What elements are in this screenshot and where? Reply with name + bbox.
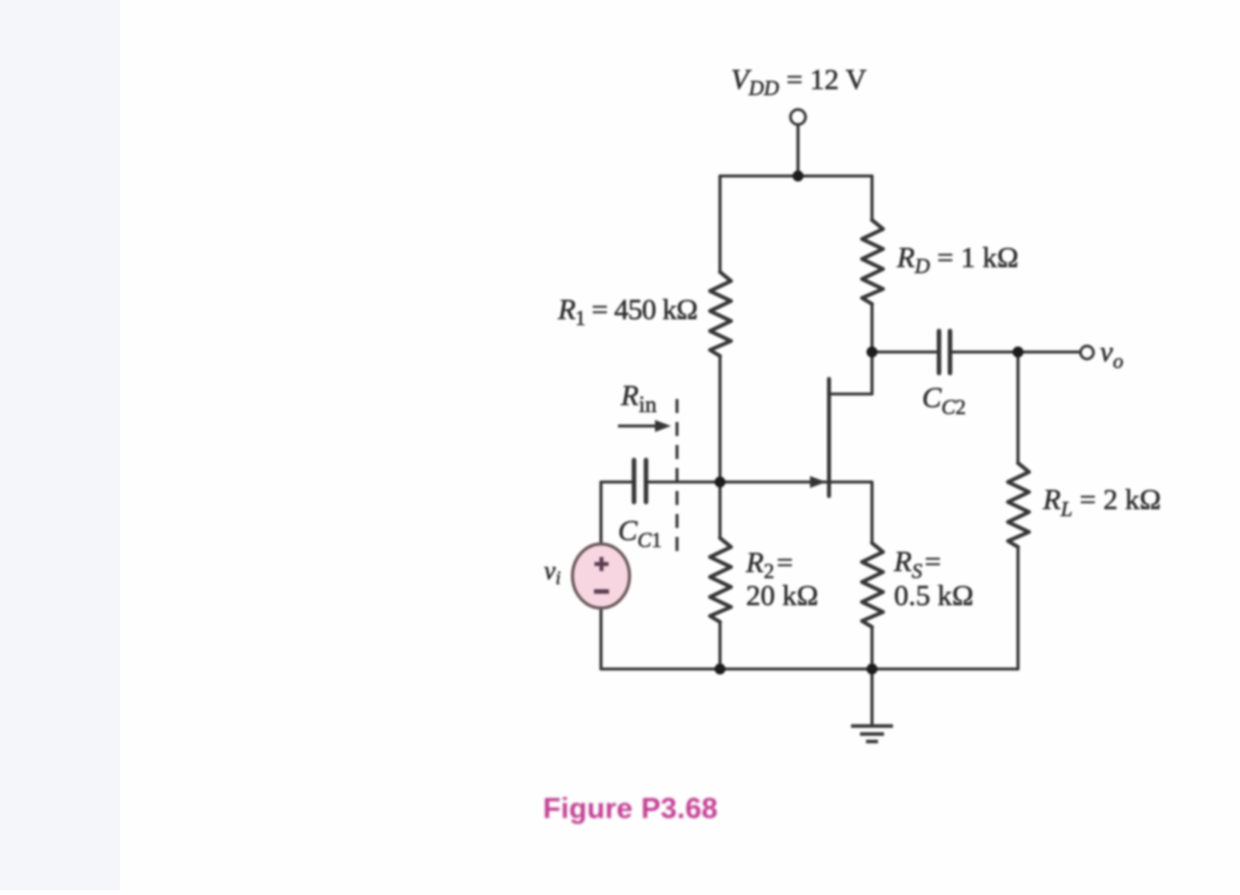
wire output row right bbox=[952, 350, 1081, 353]
wire left branch upper bbox=[718, 176, 721, 272]
svg-text:R2 =: R2 = bbox=[745, 547, 793, 583]
svg-text:vo: vo bbox=[1100, 336, 1123, 373]
svg-text:CC2: CC2 bbox=[922, 382, 966, 419]
ground symbol bbox=[851, 726, 893, 742]
resistor R1 bbox=[710, 272, 731, 356]
svg-text:RS =: RS = bbox=[893, 546, 941, 583]
resistor RL bbox=[1008, 463, 1029, 547]
wire left branch middle bbox=[718, 356, 721, 538]
capacitor CC2 bbox=[939, 331, 950, 373]
gate arrowhead bbox=[810, 476, 826, 488]
wire RS to rail bbox=[870, 627, 873, 669]
vi plus sign bbox=[595, 557, 609, 571]
left gray strip bbox=[0, 0, 120, 890]
VDD terminal circle bbox=[791, 110, 806, 125]
vi minus sign bbox=[594, 589, 609, 594]
node gate bbox=[715, 477, 726, 488]
svg-text:RD = 1 kΩ: RD = 1 kΩ bbox=[896, 242, 1019, 278]
node output bbox=[1013, 347, 1024, 358]
ground stub bbox=[870, 669, 873, 724]
svg-text:CC1: CC1 bbox=[618, 515, 662, 552]
resistor R2 bbox=[710, 538, 731, 622]
wire RD to drain node bbox=[870, 304, 873, 352]
svg-text:20 kΩ: 20 kΩ bbox=[746, 580, 818, 612]
svg-text:Rin: Rin bbox=[620, 380, 657, 417]
wire RL branch upper bbox=[1016, 352, 1019, 463]
wire left branch lower bbox=[718, 622, 721, 669]
wire CC1 left lead bbox=[601, 480, 633, 483]
wire RL branch lower bbox=[1016, 547, 1019, 669]
node junction dots bbox=[715, 171, 1024, 675]
terminal vo circle bbox=[1081, 346, 1094, 359]
wire vi top lead bbox=[599, 482, 602, 545]
wire drain bbox=[831, 352, 872, 394]
Rin dashed boundary line bbox=[676, 399, 679, 552]
node VDD rail bbox=[793, 171, 804, 182]
svg-text:VDD = 12 V: VDD = 12 V bbox=[731, 64, 867, 100]
source vi circle bbox=[573, 544, 630, 608]
Rin arrow bbox=[618, 420, 671, 432]
wire right branch upper bbox=[870, 176, 873, 220]
svg-text:0.5 kΩ: 0.5 kΩ bbox=[894, 580, 974, 612]
transistor Q1 gate bar bbox=[827, 379, 831, 496]
node rail left bbox=[715, 664, 726, 675]
capacitor CC1 bbox=[634, 460, 646, 502]
wire gate lead bbox=[648, 480, 826, 483]
svg-text:R1 = 450 kΩ: R1 = 450 kΩ bbox=[557, 294, 697, 330]
wire output row left bbox=[872, 350, 937, 353]
resistor RS bbox=[862, 543, 883, 627]
wire bottom rail bbox=[601, 667, 1018, 670]
resistor RD bbox=[862, 220, 883, 304]
wire source bbox=[831, 482, 872, 543]
wire top rail bbox=[720, 174, 872, 177]
node rail right bbox=[867, 664, 878, 675]
wire VDD stub bbox=[796, 125, 799, 176]
svg-text:RL = 2 kΩ: RL = 2 kΩ bbox=[1042, 484, 1161, 521]
node drain bbox=[867, 347, 878, 358]
wire vi bottom lead bbox=[599, 608, 602, 669]
figure caption bbox=[543, 793, 718, 826]
svg-text:vi: vi bbox=[544, 556, 561, 589]
